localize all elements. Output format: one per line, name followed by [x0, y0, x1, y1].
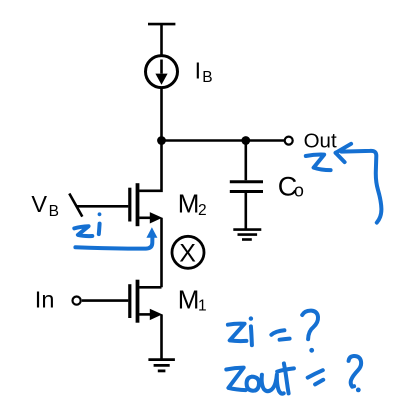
svg-text:B: B [202, 69, 212, 86]
wire (VB gate lead) [76, 205, 128, 208]
supply rail [148, 23, 175, 26]
current source IB [146, 56, 178, 88]
svg-text:M: M [178, 188, 200, 218]
label VB [31, 191, 59, 220]
wire (In gate lead) [82, 299, 129, 302]
wire (output rail) [162, 139, 285, 142]
terminal Out [285, 137, 293, 145]
node X [172, 236, 204, 268]
label IB [195, 58, 213, 86]
wire (capacitor to ground) [245, 193, 248, 230]
svg-text:o: o [294, 181, 304, 201]
label Co [278, 172, 304, 202]
svg-text:M: M [178, 284, 200, 314]
annotation arrow and bracket (z pointing to Out) [336, 144, 382, 223]
label M1 [178, 284, 207, 314]
wire (M1 source to ground) [160, 314, 163, 359]
transistor M1 [130, 280, 163, 323]
annotation handwritten zi (input impedance at M2 source) [74, 212, 101, 236]
transistor M2 [130, 141, 163, 227]
svg-text:X: X [179, 239, 196, 267]
wire (current source to output node) [160, 88, 163, 141]
annotation handwritten zout = ? [226, 356, 361, 394]
terminal In [73, 297, 81, 305]
annotation handwritten zi = ? [228, 311, 318, 353]
svg-text:I: I [195, 58, 201, 84]
wire (M2 source to M1 drain) [160, 218, 163, 287]
wire (rail to current source) [160, 24, 163, 56]
svg-text:2: 2 [198, 202, 207, 219]
node (rail junction) [157, 136, 166, 145]
svg-text:In: In [35, 286, 55, 312]
node (capacitor junction) [241, 136, 250, 145]
capacitor C3 wire down [245, 141, 248, 181]
wire (VB terminal tick) [69, 194, 82, 217]
capacitor Co [230, 182, 263, 192]
svg-text:Out: Out [304, 129, 337, 152]
ground [148, 360, 175, 371]
annotation handwritten z (output impedance at Out) [306, 155, 331, 171]
label M2 [178, 188, 207, 218]
svg-text:V: V [31, 191, 47, 217]
svg-text:B: B [49, 203, 59, 220]
annotation arrow (zi pointing to M2 source) [75, 227, 157, 248]
ground (capacitor) [233, 230, 261, 240]
svg-text:1: 1 [198, 298, 207, 315]
